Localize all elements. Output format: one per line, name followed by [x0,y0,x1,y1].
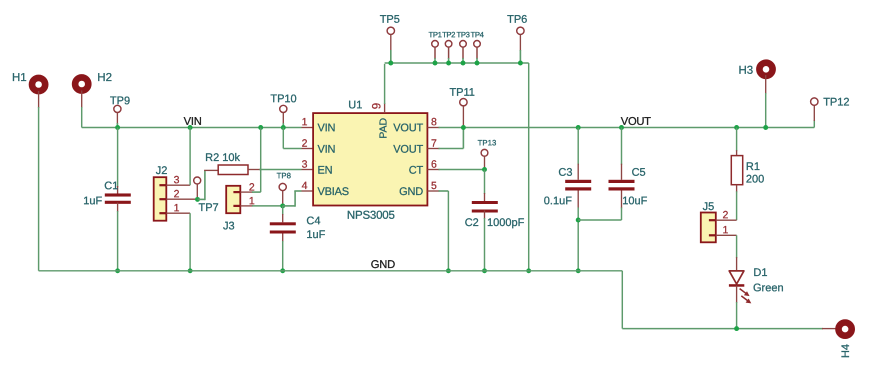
junction GND/top rail drop [526,268,531,273]
svg-text:H2: H2 [97,72,112,84]
wire TP4 to rail [476,58,478,63]
test point TP3 circle [460,41,467,48]
wire VOUT to TP12 [813,120,815,128]
svg-text:2: 2 [722,209,728,221]
wire TP3 to rail [462,58,464,63]
junction VIN/J3.2 [258,125,263,130]
wire TP7 junction right [198,198,205,200]
junction GND/C3 [576,268,581,273]
svg-text:VOUT: VOUT [393,122,423,134]
connector J5 [701,213,716,243]
J3 pin 2 stub [240,191,253,193]
capacitor C4 [270,222,296,233]
wire up to U1 pin 4 [294,191,296,207]
svg-text:TP3: TP3 [456,30,469,39]
J2 pin 2 stub [166,198,196,200]
wire R2 to EN [259,169,301,171]
test point TP1 circle [432,41,439,48]
svg-text:VIN: VIN [317,144,335,156]
TP6 pin stub [519,35,521,51]
junction J2.2/TP7/R2 [195,197,200,202]
svg-text:GND: GND [371,259,395,271]
wire top TP rail [385,62,529,64]
test point TP9 circle [114,105,121,112]
TP3 pin stub [462,47,464,59]
junction GND/D1 [734,326,739,331]
wire pin 7 right [439,148,464,150]
test point TP4 circle [474,41,481,48]
svg-text:CT: CT [409,165,424,177]
C4 bottom lead [282,234,284,243]
wire TP2 to rail [448,58,450,63]
wire VOUT to C5 [621,128,623,165]
wire VBIAS junction right [283,205,295,207]
wire TP9 to VIN [116,123,118,128]
svg-text:J3: J3 [223,220,235,232]
U1 pin 4 stub [302,190,314,192]
svg-text:C1: C1 [104,180,118,192]
U1 pin 6 stub [427,169,439,171]
J2 pin 1 stub [166,212,190,214]
wire pin 5 to GND [447,191,449,271]
wire J3 pin 1 to VBIAS [252,205,283,207]
test point TP11 circle [460,99,467,106]
wire D1 to GND lower rail [736,302,738,329]
junction rail/TP1 [433,61,438,66]
svg-text:1000pF: 1000pF [487,217,525,229]
svg-text:TP1: TP1 [428,30,441,39]
mounting hole H1 [32,78,45,91]
test point TP13 circle [481,149,488,156]
junction VIN/TP9/C1 [115,125,120,130]
svg-text:3: 3 [302,159,308,171]
resistor R1 [731,156,742,185]
mounting hole H2 [75,77,88,90]
junction rail/TP5 [388,61,393,66]
test point TP6 circle [517,27,524,34]
wire CT to C2 [484,170,486,195]
LED D1 [729,271,744,287]
junction GND/C4 [280,268,285,273]
svg-text:VIN: VIN [184,116,202,128]
C3 bottom lead [577,191,579,209]
svg-text:U1: U1 [348,99,362,111]
resistor R2 [218,165,248,175]
junction VIN/J2.3 [188,125,193,130]
svg-text:8: 8 [431,116,437,128]
H4 pin stub [822,328,838,330]
J2 pin contacts [159,184,166,214]
wire VOUT to C3 [577,128,579,165]
wire C3 to GND [577,207,579,270]
mounting hole H3 [759,63,772,76]
TP11 pin stub [462,106,464,126]
svg-text:VOUT: VOUT [621,116,651,128]
wire VIN to J3 pin 2 vertical [260,128,262,193]
svg-text:J5: J5 [703,201,715,213]
H3 pin stub [765,75,767,94]
junction rail/TP6 [518,61,523,66]
R2 right lead [248,169,260,171]
svg-text:TP6: TP6 [507,14,527,26]
svg-text:TP4: TP4 [470,30,484,39]
H1 pin stub [38,91,40,108]
wire TP1 to rail [434,58,436,63]
svg-text:C3: C3 [558,167,572,179]
R1 top lead [736,150,738,155]
wire up to R2 [204,170,206,200]
J5 pin 1 stub [716,234,737,236]
mounting hole H4 [839,323,852,336]
H2 pin stub [81,91,83,109]
R2 left lead [204,169,218,171]
wire J2 pin 1 to GND [189,213,191,271]
U1 pin 5 stub [427,190,439,192]
TP10 pin stub [282,113,284,125]
J2 pin 3 stub [166,184,190,186]
junction GND/J2.1 [188,268,193,273]
wire to U1 pin 2 [283,148,301,150]
junction GND/C1 [115,268,120,273]
wire GND lower rail [622,328,823,330]
junction VOUT/R1 [734,125,739,130]
TP13 pin stub [484,156,486,168]
svg-text:VIN: VIN [317,122,335,134]
svg-text:H3: H3 [738,65,753,77]
wire C4 to GND [282,241,284,271]
svg-text:TP7: TP7 [198,202,218,214]
wire GND rail [39,270,623,272]
TP9 pin stub [116,113,118,125]
svg-text:7: 7 [431,138,437,150]
D1 cathode lead [736,285,738,303]
svg-text:200: 200 [746,174,764,186]
junction VOUT/C5 [619,125,624,130]
svg-text:GND: GND [399,186,423,198]
TP7 pin stub [196,184,198,198]
svg-text:TP12: TP12 [823,97,849,109]
U1 pin 9 stub [384,103,386,113]
C1 bottom lead [117,203,119,213]
svg-text:TP8: TP8 [277,171,291,180]
C2 top lead [484,193,486,201]
TP1 pin stub [434,47,436,59]
C5 bottom lead [621,191,623,209]
test point TP8 circle [279,183,286,190]
wire H1 to GND rail [38,107,40,271]
svg-text:4: 4 [302,180,308,192]
svg-text:2: 2 [302,138,308,150]
connector J3 [226,186,240,213]
test point TP5 circle [387,27,394,34]
svg-text:1: 1 [722,224,728,236]
svg-text:1uF: 1uF [306,229,325,241]
wire H3 to VOUT [765,93,767,128]
svg-text:J2: J2 [156,165,168,177]
U1 pin 3 stub [302,169,314,171]
TP5 pin stub [390,35,392,51]
wire pin 7 up to VOUT [462,128,464,149]
U1 pin 1 stub [302,127,314,129]
wire top rail to GND right of U1 [528,63,530,271]
J3 pin contacts [233,191,240,207]
junction VBIAS/TP8/C4 [280,203,285,208]
wire VIN to J2 pin 3 [189,128,191,186]
C5 top lead [621,164,623,180]
U1 pin 2 stub [302,148,314,150]
wire TP6 to rail [519,50,521,63]
C2 bottom lead [484,211,486,220]
svg-text:6: 6 [431,159,437,171]
C4 top lead [282,214,284,222]
test point TP7 circle [194,177,201,184]
svg-text:PAD: PAD [378,117,390,138]
capacitor C3 [565,180,591,191]
svg-text:R2 10k: R2 10k [205,152,240,164]
svg-text:2: 2 [174,188,180,200]
junction rail/TP4 [475,61,480,66]
C3 top lead [577,164,579,180]
svg-text:R1: R1 [746,161,760,173]
svg-text:H1: H1 [12,72,27,84]
J5 pin 2 stub [716,219,737,221]
svg-text:0.1uF: 0.1uF [544,195,572,207]
wire J5 pin 1 to D1 [736,235,738,258]
J5 pin contacts [709,219,716,236]
U1 pin 8 stub [427,127,439,129]
test point TP10 circle [280,105,287,112]
capacitor C2 [472,201,498,213]
junction CT/TP13/C2 [482,167,487,172]
junction C3/C5 bottoms [576,218,581,223]
wire R1 to J5 pin 2 [736,191,738,220]
svg-text:1: 1 [174,202,180,214]
D1 anode lead [736,257,738,271]
svg-text:Green: Green [753,282,784,294]
svg-text:10uF: 10uF [622,195,647,207]
svg-text:EN: EN [317,165,332,177]
junction rail/TP3 [461,61,466,66]
TP2 pin stub [448,47,450,59]
wire CT net [439,169,485,171]
TP8 pin stub [282,191,284,205]
J3 pin 1 stub [240,205,253,207]
svg-text:VBIAS: VBIAS [317,186,348,198]
wire VOUT to R1 [736,128,738,152]
D1 emission arrows [740,289,752,304]
wire pin 5 right [439,190,449,192]
test point TP2 circle [445,41,452,48]
U1 pin 7 stub [427,148,439,150]
svg-text:C4: C4 [306,215,320,227]
svg-text:TP13: TP13 [478,138,497,147]
wire to U1 pin 4 [294,190,301,192]
svg-text:TP11: TP11 [449,87,474,99]
svg-text:NPS3005: NPS3005 [347,210,395,222]
junction VOUT/C3 [576,125,581,130]
R1 bottom lead [736,185,738,193]
svg-text:1: 1 [302,116,308,128]
test point TP12 circle [811,98,818,105]
svg-text:TP5: TP5 [380,14,400,26]
TP12 pin stub [813,106,815,122]
wire C2 to GND [484,218,486,271]
svg-text:TP2: TP2 [442,30,455,39]
TP4 pin stub [476,47,478,59]
svg-text:D1: D1 [753,267,767,279]
junction GND/C2 [482,268,487,273]
capacitor C5 [609,180,635,191]
wire TP10 to VIN [282,123,284,128]
wire VIN to J3 pin 2 horizontal [252,191,261,193]
junction VIN/TP10/U1.2 [281,125,286,130]
capacitor C1 [105,193,131,203]
connector J2 [154,177,167,221]
wire VIN drop to U1 pin 2 [282,128,284,149]
svg-text:C2: C2 [465,217,479,229]
svg-text:TP10: TP10 [270,93,296,105]
svg-text:C5: C5 [632,167,646,179]
wire C5 bottom down [621,207,623,220]
wire C1 to GND [117,211,119,271]
op-amp regulator U1 body [313,113,427,205]
svg-text:3: 3 [174,174,180,186]
wire VBIAS to C4 [282,206,284,215]
wire C5 bottom to C3 [578,219,621,221]
wire TP5 to rail [390,50,392,63]
wire VIN to C1 [117,128,119,188]
wire VOUT rail [439,127,815,129]
junction VOUT/TP11/U1.7 [461,125,466,130]
junction GND/U1.5 [446,268,451,273]
svg-text:H4: H4 [840,344,852,358]
svg-text:5: 5 [431,180,437,192]
wire top rail to pin 9 [384,64,386,104]
svg-text:1uF: 1uF [83,195,102,207]
svg-text:TP9: TP9 [110,95,130,107]
junction rail/TP2 [446,61,451,66]
C1 top lead [117,186,119,194]
junction VOUT/H3 [763,125,768,130]
svg-text:VOUT: VOUT [393,144,423,156]
wire GND step down [621,271,623,329]
wire VIN rail [82,127,302,129]
svg-text:9: 9 [372,103,384,109]
wire H2 to VIN rail [81,107,83,128]
